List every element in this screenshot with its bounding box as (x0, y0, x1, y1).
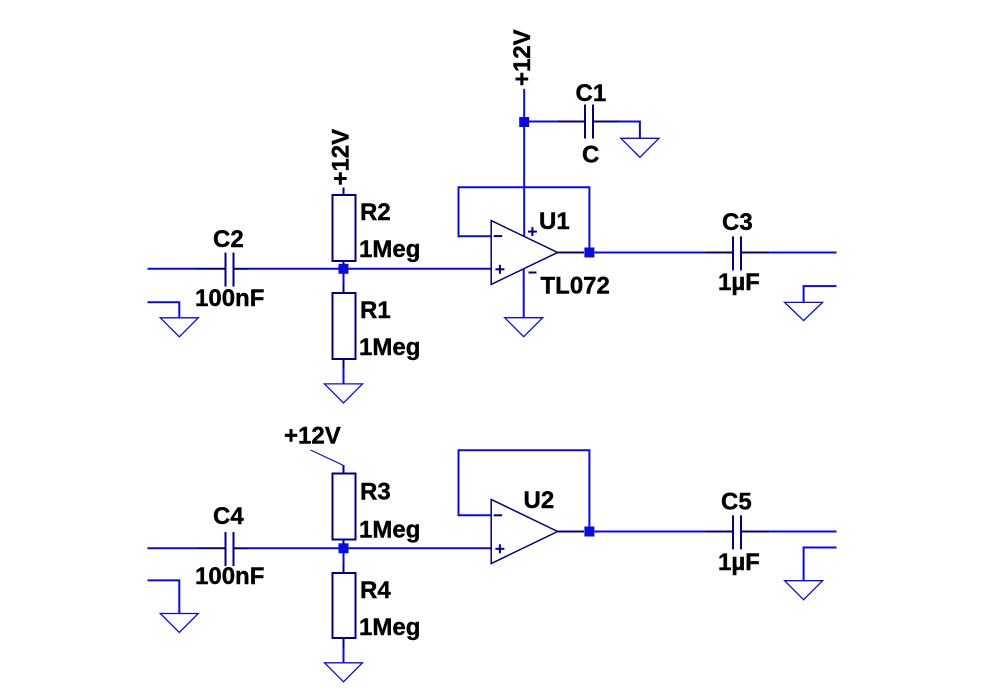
wire junction to R1 (343, 273, 345, 284)
wire output to C5 (594, 531, 707, 533)
U1 minus input dash (494, 235, 503, 237)
resistor R3 (343, 465, 345, 474)
wire C2 left pin stub (197, 268, 225, 270)
svg-text:100nF: 100nF (195, 285, 264, 312)
wire C1 to ground (619, 122, 640, 139)
node junction U2 output (584, 527, 594, 537)
svg-text:R4: R4 (360, 577, 391, 604)
wire U2 output (558, 531, 584, 533)
op-amp U2 (491, 499, 557, 563)
svg-text:TL072: TL072 (541, 273, 610, 300)
capacitor C2 (225, 253, 227, 287)
svg-text:C4: C4 (213, 503, 244, 530)
ground output bottom-right (804, 548, 837, 581)
svg-text:1Meg: 1Meg (359, 334, 420, 361)
svg-text:C5: C5 (721, 489, 752, 516)
svg-text:U2: U2 (524, 487, 555, 514)
wire +12V rail to opamp U1 V+ (523, 89, 525, 236)
wire +12V diagonal to R3 (311, 450, 343, 466)
node junction R3 R4 (339, 543, 349, 553)
resistor R4 (343, 564, 345, 573)
svg-text:C: C (582, 142, 599, 169)
svg-text:C1: C1 (576, 80, 607, 107)
ground output top-right (804, 286, 837, 302)
feedback loop U1 (459, 187, 590, 252)
wire output to C3 (594, 252, 707, 254)
wire input top segment bright (148, 268, 198, 270)
svg-text:1µF: 1µF (718, 269, 760, 296)
ground input bottom-left (148, 580, 180, 613)
svg-text:R2: R2 (360, 199, 391, 226)
svg-text:R1: R1 (360, 297, 391, 324)
U2 plus input (495, 548, 504, 550)
U1 plus input (495, 268, 504, 270)
wire R1 to ground (343, 368, 345, 384)
svg-text:1µF: 1µF (718, 549, 760, 576)
ground under U1 (505, 318, 543, 337)
wire R4 to ground (343, 647, 345, 663)
capacitor C3 (732, 236, 734, 270)
wire C4 left pin stub (197, 547, 225, 549)
svg-text:1Meg: 1Meg (359, 517, 420, 544)
svg-text:C2: C2 (213, 226, 244, 253)
svg-text:+12V: +12V (509, 29, 536, 86)
node junction U1 output (584, 248, 594, 258)
capacitor C1 (584, 105, 586, 139)
ground C1 (621, 138, 659, 157)
U1 V- minus mark (529, 272, 537, 274)
svg-text:+12V: +12V (328, 129, 355, 186)
wire C4 to opamp U2 (248, 547, 491, 549)
wire C2 to opamp U1 (248, 268, 491, 270)
svg-text:1Meg: 1Meg (359, 614, 420, 641)
ground input top-left (148, 302, 180, 318)
wire U1 output (558, 252, 584, 254)
node junction +12V rail (519, 117, 529, 127)
svg-text:100nF: 100nF (195, 563, 264, 590)
node junction R1 R2 (339, 264, 349, 274)
U2 minus input dash (494, 514, 503, 516)
wire input bottom segment bright (148, 547, 198, 549)
wire C5 to output end (769, 531, 837, 533)
wire junction to R4 (343, 553, 345, 565)
resistor R2 (343, 188, 345, 196)
svg-text:C3: C3 (722, 209, 753, 236)
svg-text:+12V: +12V (284, 423, 341, 450)
wire U1 V- to ground (523, 269, 525, 318)
svg-text:R3: R3 (360, 479, 391, 506)
capacitor C5 (732, 515, 734, 549)
svg-text:U1: U1 (539, 208, 570, 235)
feedback loop U2 (459, 450, 590, 531)
wire C3 to output end (769, 252, 837, 254)
op-amp U1 (491, 221, 557, 285)
wire rail to C1 (529, 121, 558, 123)
capacitor C4 (225, 532, 227, 566)
U1 V+ plus mark (528, 231, 537, 233)
resistor R1 (343, 284, 345, 293)
ground under R1 (325, 384, 363, 403)
svg-text:1Meg: 1Meg (359, 236, 420, 263)
ground under R4 (325, 663, 363, 682)
